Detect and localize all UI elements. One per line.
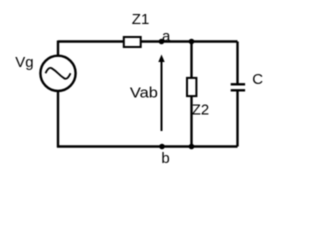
svg-text:a: a — [162, 28, 171, 45]
svg-text:Z1: Z1 — [132, 11, 150, 28]
svg-text:C: C — [252, 71, 263, 88]
svg-text:b: b — [161, 150, 169, 167]
svg-text:Z2: Z2 — [192, 101, 209, 118]
svg-text:Vab: Vab — [130, 85, 158, 102]
svg-text:Vg: Vg — [15, 54, 33, 71]
